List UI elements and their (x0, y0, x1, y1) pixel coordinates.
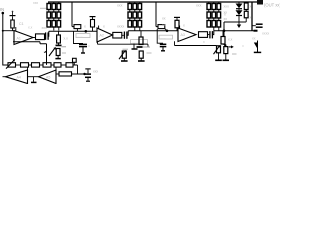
op-amp U2 power stub (98, 26, 100, 29)
ground G7 under RV1 (218, 53, 220, 60)
ground G1 (57, 56, 59, 59)
svg-text:C1: C1 (19, 22, 24, 26)
down-arrow transducer symbol (257, 41, 259, 53)
feed wire from bus at x=156 (156, 2, 158, 27)
svg-text:xx: xx (162, 23, 166, 27)
svg-text:xxx: xxx (33, 1, 38, 5)
junction bar under R11 (137, 46, 143, 48)
svg-text:A4: A4 (17, 76, 21, 80)
trimmer RV4 (122, 51, 126, 58)
rail segment (29, 64, 32, 66)
rail segment (61, 64, 66, 66)
diode D2 (238, 9, 240, 11)
resistor R13 (vertical above U3) (176, 17, 178, 20)
wire R12 to stage3 node (165, 29, 167, 31)
gray dash right (147, 52, 152, 54)
op-amp U1 power stub (15, 27, 17, 32)
gray dash left of stack1 (40, 7, 48, 9)
svg-text:xxx: xxx (224, 5, 230, 9)
ground under RV4 (123, 58, 125, 60)
ground stub under C8 (87, 77, 89, 81)
capacitor C2 plates (79, 43, 87, 45)
stack 1 connecting stubs (49, 2, 59, 31)
svg-text:x.x: x.x (28, 26, 33, 30)
stub down to R15 (222, 31, 224, 37)
capacitor C8 open stub (87, 70, 89, 74)
resistor R12 (horizontal, small) (158, 25, 165, 29)
end mark on output wire (254, 30, 258, 32)
top supply bus wire (48, 1, 261, 3)
coupling capacitor plates (256, 23, 263, 25)
label box stage2 (gray) (131, 40, 148, 44)
svg-text:xx: xx (162, 17, 166, 21)
junction arrow down (238, 22, 240, 25)
resistor R17a (vertical, parallel diodes) (244, 3, 248, 10)
resistor R19 (21, 63, 29, 67)
trimmer resistor RV2 (56, 49, 60, 56)
op-amp U3 (178, 28, 196, 42)
junction R15/R16 (224, 44, 226, 46)
label box (gray) (76, 34, 90, 38)
ground under R11b (140, 58, 142, 60)
junction node stage3 input (166, 30, 169, 33)
interstage wire A (49, 30, 97, 32)
resistor R10 (horizontal) (113, 32, 122, 38)
input cap stem node (12, 11, 14, 13)
junction bar under R7 (58, 43, 60, 45)
svg-text:xxxx: xxxx (262, 32, 269, 36)
wire right from R7 junction (62, 46, 67, 48)
resistor R21 (43, 63, 51, 67)
capacitor C8 plates (85, 73, 91, 75)
capacitor C3 top plate (90, 16, 96, 18)
capacitor C10 (series plates) (44, 36, 47, 38)
ground G6 (162, 47, 164, 51)
wire down to capacitor C9 (157, 29, 163, 43)
resistor R8 (horizontal, small) (74, 25, 81, 29)
resistor R9 (vertical above U2) (92, 17, 94, 20)
riser to interstage wire B (127, 31, 128, 36)
wire down to capacitor C2 (74, 31, 84, 43)
gray dash right of R16 (232, 53, 237, 55)
stage1 feedback wire (13, 42, 47, 65)
svg-text:x.x: x.x (228, 38, 233, 42)
interstage wire B (128, 30, 178, 32)
wiper arrow (229, 46, 232, 48)
resistor R16 (vertical) (224, 47, 228, 54)
gray dash left (123, 48, 129, 50)
wire U5 to U4 (28, 76, 39, 78)
U4 stub to rail (27, 67, 29, 70)
junction dot right chain (223, 29, 226, 32)
op-amp U1 (14, 31, 33, 45)
trimmer RV1 (217, 46, 221, 53)
rail end down to output wire (73, 65, 78, 74)
resistor R11 (vertical under wire B) (140, 31, 142, 37)
op-amp U5 (points left) (39, 70, 57, 84)
resistor R23 (right of U5) (59, 72, 72, 76)
wire U5 edge to R23 (56, 73, 59, 75)
resistor R4 (input, vertical) (11, 20, 14, 28)
capacitor C7 top plate (174, 16, 180, 18)
svg-text:x: x (183, 24, 185, 28)
wire R8 to node (76, 29, 78, 32)
wire right of R23 (72, 73, 89, 75)
op-amp U2 (97, 28, 113, 42)
svg-text:x: x (250, 5, 252, 9)
stub from label box down (133, 44, 135, 49)
svg-text:IN: IN (0, 7, 4, 12)
resistor R22 (54, 63, 61, 67)
svg-text:x: x (250, 16, 252, 20)
op-amp U3 power stub (179, 26, 181, 29)
rail segment (51, 64, 54, 66)
svg-text:xx: xx (252, 37, 256, 41)
output wire to right edge (214, 30, 256, 32)
stage2 feedback wire (98, 42, 149, 47)
ground stub G4 (33, 77, 35, 82)
op-amp U4 (points left) (6, 70, 28, 84)
gray dash right of RV2 (62, 52, 66, 54)
trimmer RV3 (box with arrow) (8, 63, 16, 67)
svg-text:(OUT xx): (OUT xx) (264, 3, 280, 8)
resistor R11b (lower) (139, 51, 143, 58)
svg-text:xxxx: xxxx (117, 25, 124, 29)
output branch wire from bus at x=252 (251, 2, 253, 31)
right chain wire from diode bottoms (223, 22, 225, 37)
svg-text:=: = (88, 45, 90, 49)
wire U1 output (33, 37, 36, 39)
left rail wire down (2, 13, 4, 66)
resistor R14 (horizontal) (199, 32, 208, 38)
svg-text:A2: A2 (100, 34, 104, 38)
stack 2 connecting stubs (130, 2, 140, 31)
svg-text:x: x (84, 25, 86, 29)
resistor ladder stack 1 (R1a-R1i) (47, 4, 61, 28)
feed wire from bus at x=72 (72, 2, 74, 27)
junction bar left (132, 48, 138, 50)
svg-text:......: ...... (161, 35, 166, 39)
wire diode/resistor bottoms (224, 16, 246, 23)
resistor R5 (U1 output, horizontal) (36, 34, 45, 40)
svg-text:xxx: xxx (117, 4, 123, 8)
bottom rail wire (3, 64, 8, 66)
svg-text:A5: A5 (46, 76, 50, 80)
riser to interstage wire A (47, 31, 50, 36)
capacitor C11 (series plates) (208, 34, 210, 36)
wire to op-amp input (3, 30, 14, 32)
serif on riser (44, 51, 46, 53)
stack 3 connecting stubs (209, 2, 219, 31)
riser to output wire (212, 31, 213, 35)
svg-text:xx: xx (224, 11, 228, 15)
resistor R17b (vertical, series) (244, 11, 248, 17)
rail segment (40, 64, 44, 66)
svg-text:A3: A3 (181, 33, 185, 37)
ground G3 under R16 (225, 54, 227, 60)
wire U4 tip stub (3, 76, 6, 78)
resistor R20 (32, 63, 40, 67)
svg-text:xxx: xxx (42, 26, 48, 30)
svg-text:xx: xx (224, 17, 228, 21)
trimmer arrow (49, 48, 55, 56)
svg-text:......: ...... (78, 34, 83, 38)
svg-text:........: ........ (132, 40, 139, 44)
svg-text:xxx: xxx (196, 4, 202, 8)
resistor ladder stack 2 (R2a-R2i) (128, 4, 142, 28)
svg-text:A1: A1 (17, 37, 21, 41)
svg-text:x.x: x.x (64, 37, 69, 41)
svg-text:x: x (103, 25, 105, 29)
ground G2 (82, 47, 84, 53)
small resistor above rail (73, 58, 77, 62)
resistor ladder stack 3 (R3a-R3i) (207, 4, 221, 28)
label box stage3 (gray) (159, 35, 173, 39)
U5 stub to rail (55, 67, 57, 70)
rail segment (16, 64, 21, 66)
svg-text:x: x (203, 40, 205, 44)
stage3 feedback wire (175, 41, 217, 45)
junction on wire (83, 73, 85, 75)
junction dot on left rail (2, 30, 4, 32)
OUT terminal pad (257, 0, 263, 5)
resistor R7 (to ground) (58, 31, 60, 35)
resistor R15 (vertical) (221, 37, 225, 45)
junction node stage2 input (85, 30, 88, 33)
capacitor C4 (series plates) (122, 34, 124, 36)
input node junction (2, 12, 5, 15)
svg-text:=: = (242, 44, 244, 48)
capacitor C9 plates (160, 43, 167, 45)
capacitor C1 top plate (12, 12, 14, 16)
resistor R24 (66, 63, 73, 67)
svg-text:xxx: xxx (93, 70, 98, 74)
diode D1 (238, 2, 240, 4)
gray wire right of R11 (143, 46, 151, 48)
